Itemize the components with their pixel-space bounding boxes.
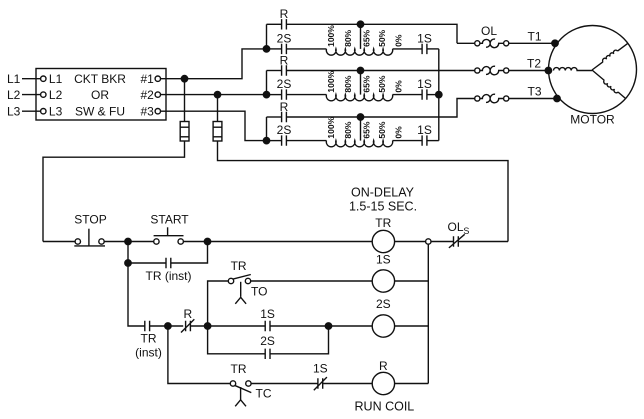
- labels group3: [277, 100, 432, 137]
- node rung2 mid: [204, 323, 210, 329]
- motor circle: [549, 26, 637, 114]
- svg-text:RUN COIL: RUN COIL: [355, 399, 415, 413]
- contact R (run) group1: [282, 19, 287, 29]
- wire group2 run path left: [267, 70, 282, 72]
- node on phase #2 at fuse tap: [214, 91, 220, 97]
- svg-text:TR: TR: [375, 216, 391, 230]
- svg-text:1S: 1S: [417, 77, 432, 91]
- node T3 at motor: [554, 95, 560, 101]
- pushbutton STOP (NC): [75, 239, 80, 244]
- contact OLs (NC overload): [454, 236, 459, 246]
- contact R (run) group3: [282, 112, 287, 122]
- terminal L3: [41, 109, 46, 114]
- label 2S coil: [376, 297, 391, 311]
- motor winding T3 (lower): [618, 92, 626, 99]
- node group2 left junction: [263, 91, 269, 97]
- wire TR(inst) holding branch: [128, 242, 166, 264]
- svg-text:#1: #1: [141, 72, 155, 86]
- svg-text:80%: 80%: [343, 29, 353, 46]
- label TR (TO rung): [231, 259, 247, 273]
- wire phase #2 from terminal to group 2: [161, 94, 264, 96]
- wire start to TR coil: [183, 241, 372, 243]
- labels for disconnect: [7, 72, 154, 118]
- wire group2 tap riser: [360, 71, 362, 95]
- overload OL phase 1: [475, 41, 480, 46]
- svg-text:R: R: [280, 100, 289, 114]
- svg-text:TR: TR: [231, 259, 247, 273]
- node group2 tap on run path: [357, 67, 363, 73]
- autotransformer coil group2: [326, 95, 392, 101]
- svg-text:1S: 1S: [417, 32, 432, 46]
- svg-text:S: S: [463, 226, 469, 236]
- overload OL phase 3: [475, 96, 480, 101]
- label OLs: [448, 220, 470, 236]
- svg-text:50%: 50%: [377, 29, 387, 46]
- svg-text:0%: 0%: [393, 126, 403, 139]
- wire 1S common bus: [438, 49, 440, 141]
- coil R run coil: [372, 372, 394, 394]
- wire from fuse 2 to control right rail: [218, 141, 509, 242]
- wire rung2 c: [270, 325, 372, 327]
- svg-text:L1: L1: [7, 72, 21, 86]
- motor winding T1 (upper): [618, 43, 628, 51]
- coil 1S: [372, 270, 394, 292]
- wire 2S coil to rail: [395, 325, 429, 327]
- wire group2 1S to bus: [427, 94, 439, 96]
- contact R (run) group2: [282, 65, 287, 75]
- wire group2 coil to 1S: [393, 94, 423, 96]
- wire TC rung b: [323, 383, 372, 385]
- wire group1 to coil: [287, 48, 327, 50]
- wire group3 run path left: [267, 116, 282, 118]
- contact 2S group3: [282, 135, 287, 145]
- svg-text:80%: 80%: [343, 75, 353, 92]
- svg-text:OR: OR: [91, 88, 109, 102]
- svg-text:OL: OL: [448, 220, 464, 234]
- fuse FU1: [180, 122, 189, 142]
- node group3 tap on run path: [357, 114, 363, 120]
- svg-text:80%: 80%: [343, 121, 353, 138]
- svg-text:T1: T1: [528, 30, 542, 44]
- node group1 tap on run path: [357, 21, 363, 27]
- contact 2S group2: [282, 89, 287, 99]
- node group1 left junction: [263, 46, 269, 52]
- wire group3 left tie: [266, 117, 268, 141]
- wire group1 left tie: [266, 24, 268, 49]
- svg-text:TR: TR: [231, 362, 247, 376]
- disconnect box CKT BKR OR SW & FU: [36, 69, 166, 121]
- contact TR timed TO (NOTC): [228, 278, 233, 283]
- wire group3 tap riser: [360, 117, 362, 141]
- svg-text:TR: TR: [141, 332, 157, 346]
- wire group1 1S to bus: [427, 48, 439, 50]
- fuse FU2: [213, 122, 222, 142]
- wire stop to start: [104, 241, 154, 243]
- svg-text:R: R: [280, 7, 289, 21]
- svg-text:T2: T2: [527, 56, 541, 70]
- svg-text:1S: 1S: [260, 307, 275, 321]
- wire L1 lead-in: [22, 78, 41, 80]
- wire group1 run path left: [267, 23, 282, 25]
- svg-text:1S: 1S: [376, 252, 391, 266]
- svg-text:L2: L2: [49, 88, 63, 102]
- tap labels group2: [326, 70, 404, 92]
- contact TR (inst) rung2: [145, 321, 150, 331]
- label TR (inst): [146, 269, 192, 283]
- svg-text:TO: TO: [251, 284, 267, 298]
- contact TR (inst) holding: [166, 258, 171, 268]
- node left rail branch: [125, 260, 131, 266]
- label TO: [251, 284, 267, 298]
- wire phase #1 from terminal to jog: [161, 49, 264, 79]
- terminal L2: [41, 92, 46, 97]
- svg-text:0%: 0%: [393, 34, 403, 47]
- node rung2 left: [165, 323, 171, 329]
- svg-text:100%: 100%: [326, 25, 336, 47]
- svg-text:L1: L1: [49, 72, 63, 86]
- wire group3 coil to 1S: [393, 140, 423, 142]
- svg-text:100%: 100%: [326, 70, 336, 92]
- wire 1S coil to rail: [395, 280, 429, 282]
- wire group1 tap riser: [360, 24, 362, 49]
- svg-text:R: R: [379, 359, 388, 373]
- wire to OL1: [457, 42, 475, 44]
- motor winding T2 (left): [554, 68, 593, 71]
- wire TC rung a: [251, 383, 318, 385]
- svg-text:TC: TC: [256, 386, 272, 400]
- wire R coil to rail: [395, 383, 429, 385]
- wire TR coil to node: [395, 241, 426, 243]
- label TR (TC rung): [231, 362, 247, 376]
- svg-text:2S: 2S: [277, 123, 292, 137]
- svg-text:TR (inst): TR (inst): [146, 269, 192, 283]
- wire rung2 a: [150, 325, 183, 327]
- label RUN COIL: [355, 399, 415, 413]
- wire group1 run path right to T1 jog: [287, 24, 457, 43]
- label TR coil: [375, 216, 391, 230]
- wire group2 run path right to OL2: [287, 70, 475, 72]
- contact R (NC) rung2: [186, 321, 191, 331]
- overload OL phase 2: [475, 68, 480, 73]
- wire group3 to coil: [287, 140, 327, 142]
- node after start: [204, 238, 210, 244]
- label START: [150, 213, 189, 227]
- svg-text:0%: 0%: [393, 80, 403, 93]
- svg-text:R: R: [183, 307, 192, 321]
- label TR (inst) rung2: [135, 332, 162, 360]
- wire TC rung drop: [168, 326, 230, 384]
- wire group1 coil to 1S: [393, 48, 423, 50]
- contact 2S branch: [265, 349, 270, 359]
- labels group2: [277, 53, 432, 91]
- wire group2 left tie: [266, 71, 268, 95]
- svg-text:#2: #2: [141, 88, 155, 102]
- wire group3 run path right to T3 jog: [287, 99, 475, 118]
- svg-text:2S: 2S: [277, 77, 292, 91]
- svg-text:65%: 65%: [361, 121, 371, 138]
- wire rung2 b: [191, 325, 265, 327]
- contact 1S group1: [422, 44, 427, 54]
- labels T1 T2 T3: [527, 30, 542, 99]
- wire stop lead: [43, 241, 75, 243]
- wire L3 lead-in: [22, 110, 41, 112]
- svg-text:65%: 65%: [361, 75, 371, 92]
- node on 1S bus: [436, 91, 442, 97]
- wire T3 line: [509, 98, 626, 100]
- svg-text:SW & FU: SW & FU: [75, 104, 125, 118]
- svg-text:1S: 1S: [313, 362, 328, 376]
- contact 2S group1: [282, 44, 287, 54]
- svg-text:ON-DELAY: ON-DELAY: [351, 186, 415, 200]
- wire left rail down: [128, 263, 145, 326]
- svg-text:2S: 2S: [376, 297, 391, 311]
- wire fuse 2 drop: [217, 95, 219, 122]
- wire phase #3 from terminal to jog: [161, 111, 264, 140]
- svg-text:1.5-15 SEC.: 1.5-15 SEC.: [349, 199, 417, 213]
- node terminal circle after TR: [426, 239, 431, 244]
- terminal #3: [155, 109, 160, 114]
- svg-text:100%: 100%: [326, 116, 336, 138]
- svg-text:STOP: STOP: [74, 213, 106, 227]
- contact 1S (NC) TC rung: [318, 378, 323, 388]
- svg-text:50%: 50%: [377, 75, 387, 92]
- terminal L1: [41, 76, 46, 81]
- wire OLs to right rail: [459, 241, 508, 243]
- label 1S (TC rung): [313, 362, 328, 376]
- svg-text:L3: L3: [7, 104, 21, 118]
- svg-text:L3: L3: [49, 104, 63, 118]
- label 1S coil: [376, 252, 391, 266]
- label MOTOR: [570, 113, 615, 127]
- svg-text:2S: 2S: [260, 334, 275, 348]
- wire group3 start path left: [267, 140, 282, 142]
- wire 2S parallel branch: [208, 326, 266, 354]
- node T2 at motor: [545, 67, 551, 73]
- svg-text:2S: 2S: [277, 32, 292, 46]
- terminal #1: [155, 76, 160, 81]
- svg-text:START: START: [150, 213, 189, 227]
- wire from fuse 1 to control left rail: [43, 141, 185, 242]
- node rung2 right: [325, 323, 331, 329]
- label 1S rung2: [260, 307, 275, 321]
- node group3 left junction: [263, 137, 269, 143]
- svg-text:CKT BKR: CKT BKR: [74, 72, 126, 86]
- wire node to OLs: [431, 241, 453, 243]
- contact 1S group2: [422, 89, 427, 99]
- svg-text:(inst): (inst): [135, 346, 162, 360]
- label R rung2: [183, 307, 192, 321]
- tap labels group3: [326, 116, 404, 138]
- contact 1S rung2: [265, 321, 270, 331]
- svg-text:R: R: [280, 53, 289, 67]
- wire TO rung to 1S coil: [251, 280, 372, 282]
- svg-text:MOTOR: MOTOR: [570, 113, 615, 127]
- contact 1S group3: [422, 135, 427, 145]
- node after stop: [125, 238, 131, 244]
- svg-text:OL: OL: [481, 24, 497, 38]
- svg-text:T3: T3: [528, 84, 542, 98]
- coil 2S: [372, 315, 394, 337]
- wire group1 start path left: [267, 48, 282, 50]
- wire TO rung riser: [208, 281, 229, 326]
- coil TR: [372, 230, 394, 252]
- node T1 at motor: [552, 40, 558, 46]
- wire fuse 1 drop: [184, 79, 186, 122]
- pushbutton START (NO): [154, 239, 159, 244]
- autotransformer coil group3: [326, 141, 392, 147]
- svg-text:1S: 1S: [417, 123, 432, 137]
- svg-text:65%: 65%: [361, 29, 371, 46]
- label OL: [481, 24, 497, 38]
- autotransformer coil group1: [326, 49, 392, 55]
- label STOP: [74, 213, 106, 227]
- label R coil: [379, 359, 388, 373]
- svg-text:L2: L2: [7, 88, 21, 102]
- label 2S branch: [260, 334, 275, 348]
- label ON-DELAY: [349, 186, 417, 214]
- wire coil return rail: [427, 244, 429, 383]
- wire group3 1S to bus: [427, 140, 439, 142]
- contact TR timed TC (NCTO): [230, 381, 235, 386]
- wire group2 to coil: [287, 94, 327, 96]
- node on phase #1 at fuse tap: [181, 76, 187, 82]
- labels group1: [277, 7, 432, 45]
- label TC: [256, 386, 272, 400]
- wire L2 lead-in: [22, 94, 41, 96]
- tap labels group1: [326, 25, 404, 47]
- svg-text:#3: #3: [141, 104, 155, 118]
- wire T2 line: [509, 70, 554, 72]
- wire T1 line: [509, 42, 628, 44]
- terminal #2: [155, 92, 160, 97]
- wire group2 start path left: [267, 94, 282, 96]
- svg-text:50%: 50%: [377, 121, 387, 138]
